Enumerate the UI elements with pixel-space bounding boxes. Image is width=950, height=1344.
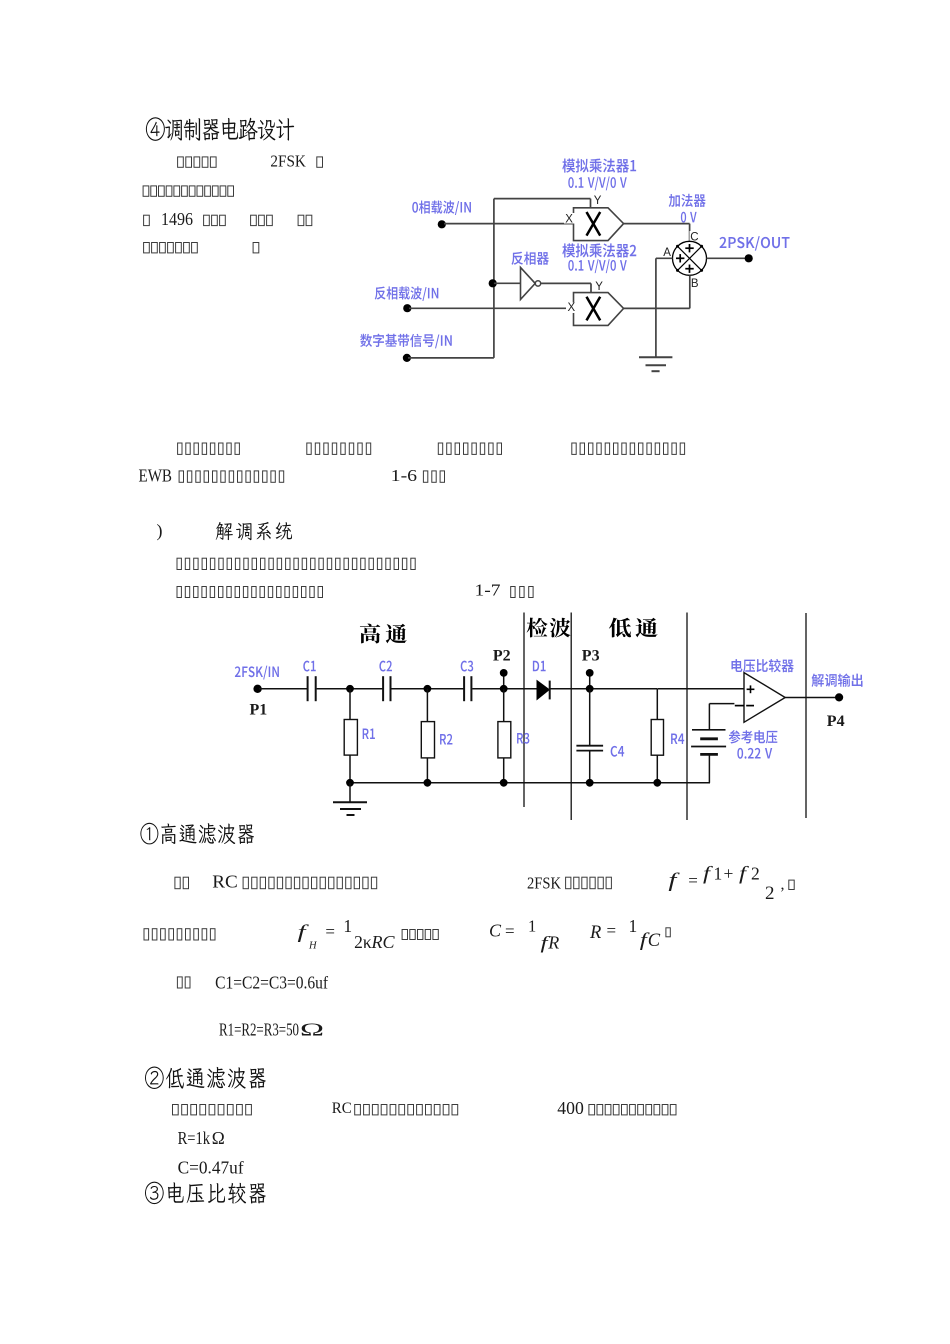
bottom bus wire (350, 782, 710, 784)
svg-text:2: 2 (751, 864, 760, 884)
svg-text:+: + (724, 864, 734, 884)
wire baseband top horizontal (494, 198, 591, 200)
paragraph 1 line 4 (144, 243, 150, 253)
wire C2 to node2 (391, 688, 464, 690)
resistor R3 (503, 689, 505, 722)
pin label X of U2 (566, 303, 577, 314)
svg-text:P3: P3 (582, 648, 600, 665)
node P2 (500, 685, 508, 693)
wire adder output (707, 257, 747, 259)
wire baseband vertical (493, 199, 495, 358)
svg-text:1: 1 (714, 864, 723, 884)
label detector section (527, 618, 571, 638)
section divider line 1 (523, 613, 525, 808)
section divider line 2 (570, 613, 572, 821)
svg-text:1: 1 (528, 917, 536, 936)
svg-text:H: H (308, 941, 318, 952)
svg-text:Ω: Ω (212, 1128, 225, 1148)
svg-text:C: C (648, 931, 661, 951)
multiplier U1 (574, 208, 624, 241)
label 2FSK/IN (235, 666, 279, 680)
resistor R1 (349, 689, 351, 720)
paragraph 3 line 2 (177, 587, 181, 598)
capacitor C2 (382, 676, 384, 701)
svg-text:P4: P4 (827, 713, 845, 730)
wire battery to op-amp minus (709, 703, 734, 705)
label low-pass section (609, 618, 658, 638)
label high-pass section (360, 624, 407, 644)
label multiplier2 name (562, 243, 636, 257)
svg-text:2: 2 (765, 883, 775, 904)
wire multiplier2 output (624, 307, 690, 309)
svg-text:f: f (668, 871, 680, 892)
wire multiplier1 Y stub (590, 199, 592, 208)
values line C1=C2=C3 (177, 977, 182, 988)
wire multiplier2 Y stub (590, 283, 592, 292)
capacitor C4 (589, 689, 591, 745)
label adder value (681, 212, 697, 223)
multiplier U2 (574, 293, 624, 326)
wire node R4 to op-amp (657, 688, 744, 690)
resistor R2 (426, 689, 428, 722)
node 1 (346, 685, 354, 693)
svg-text:X: X (568, 302, 576, 314)
svg-text:1-6: 1-6 (391, 466, 417, 485)
node P3 (586, 685, 594, 693)
svg-text:P1: P1 (250, 702, 268, 719)
section divider line 4 (805, 613, 807, 818)
pin label C (690, 231, 699, 242)
paragraph low-pass line (173, 1105, 179, 1115)
wire carrier0 to multiplier1 X (444, 223, 574, 225)
svg-text:): ) (157, 521, 163, 542)
formula paragraph line 2 (144, 929, 149, 940)
heading: low-pass filter (145, 1067, 266, 1089)
terminal 0-phase carrier (438, 220, 446, 228)
svg-text:X: X (565, 213, 573, 225)
label inverted carrier input (375, 286, 439, 301)
label inverter (511, 252, 548, 265)
svg-text:400: 400 (557, 1098, 584, 1118)
node baseband/inverter junction (489, 279, 497, 287)
wire op-amp output (785, 697, 837, 699)
heading: high-pass filter (140, 823, 254, 845)
terminal 2PSK output (745, 254, 753, 262)
terminal P3 stub (589, 673, 591, 689)
svg-text:EWB: EWB (139, 466, 173, 486)
svg-text:RC: RC (332, 1100, 352, 1117)
terminal digital baseband (403, 354, 411, 362)
svg-text:R: R (589, 923, 601, 943)
capacitor C3 (463, 676, 465, 701)
svg-text:f: f (739, 864, 750, 885)
wire adder C stub (689, 224, 691, 242)
svg-text:RC: RC (371, 932, 396, 952)
svg-text:1496: 1496 (161, 209, 193, 229)
ground (modulator) (639, 356, 672, 358)
label digital baseband input (360, 334, 452, 349)
svg-text:R=1k: R=1k (178, 1128, 211, 1148)
wire multiplier1 output (624, 223, 690, 225)
terminal P1 (253, 685, 261, 693)
op-amp comparator (744, 673, 785, 723)
label voltage comparator (731, 659, 793, 672)
label reference voltage (729, 730, 778, 743)
svg-text:P2: P2 (493, 648, 511, 665)
label demodulated output (812, 674, 863, 687)
wire C3 to node P2 (472, 688, 537, 690)
label 0-phase carrier input (412, 201, 471, 216)
paragraph 2 line 1 (178, 443, 182, 454)
svg-text:=: = (607, 921, 617, 940)
svg-text:A: A (663, 247, 671, 259)
svg-text:2FSK: 2FSK (527, 873, 562, 892)
wire P1 to C1 (259, 688, 307, 690)
ground (demodulator) (349, 783, 351, 803)
document title (146, 117, 294, 141)
heading: voltage comparator (145, 1182, 266, 1204)
svg-text:f: f (298, 922, 310, 943)
wire inverted carrier to multiplier2 X (409, 307, 574, 309)
formula paragraph line 1 (175, 877, 180, 889)
label multiplier1 value (568, 176, 626, 190)
wire adder B stub down (689, 275, 691, 308)
svg-text:R1=R2=R3=50: R1=R2=R3=50 (219, 1020, 299, 1040)
svg-text:Y: Y (594, 195, 602, 207)
pin label X of U1 (564, 213, 575, 224)
svg-text:=: = (505, 922, 515, 941)
terminal inverted carrier (403, 304, 411, 312)
wire inverter to multiplier2 Y (541, 282, 591, 284)
svg-text:Y: Y (595, 281, 603, 293)
svg-text:C: C (489, 920, 502, 940)
svg-text:1: 1 (629, 916, 638, 936)
paragraph 1 line 1 (178, 157, 184, 167)
terminal demod output (835, 693, 843, 701)
paragraph 1 line 2 (143, 186, 149, 196)
svg-text:R: R (547, 932, 559, 952)
pin label B (690, 277, 700, 288)
paragraph 1 line 3 (144, 215, 150, 225)
resistor R4 (656, 689, 658, 720)
svg-text:,: , (781, 876, 785, 893)
paragraph 3 line 1 (177, 558, 181, 569)
diode D1 (533, 661, 546, 672)
wire adder A left and down to ground (656, 257, 673, 259)
svg-text:2κ: 2κ (354, 932, 372, 952)
node 2 (424, 685, 432, 693)
wire baseband horizontal (408, 357, 494, 359)
svg-text:f: f (703, 864, 714, 885)
wire D1 to node P3 (550, 688, 657, 690)
svg-text:=: = (688, 871, 698, 890)
label adder name (669, 194, 706, 207)
svg-text:C=0.47uf: C=0.47uf (178, 1158, 244, 1178)
svg-text:=: = (325, 922, 335, 941)
svg-text:1-7: 1-7 (475, 580, 502, 599)
label multiplier1 name (562, 158, 636, 172)
svg-text:B: B (691, 278, 699, 290)
svg-text:Ω: Ω (300, 1020, 324, 1040)
adder U4 (673, 241, 707, 275)
section divider line 3 (686, 613, 688, 821)
battery reference voltage (692, 729, 726, 731)
svg-text:RC: RC (212, 872, 238, 892)
bus junction nodes (346, 779, 354, 787)
terminal P2 stub (503, 673, 505, 689)
inverter U3 (521, 267, 536, 299)
wire C1 to node1 (317, 688, 383, 690)
wire junction to inverter (494, 282, 521, 284)
svg-text:2FSK: 2FSK (270, 152, 306, 171)
capacitor C1 (307, 676, 309, 701)
svg-text:1: 1 (343, 916, 352, 936)
label multiplier2 value (568, 259, 626, 273)
label 2PSK/OUT (719, 236, 789, 251)
svg-text:C1=C2=C3=0.6uf: C1=C2=C3=0.6uf (215, 973, 328, 993)
